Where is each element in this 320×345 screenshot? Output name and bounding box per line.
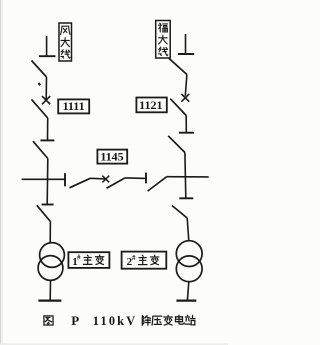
- wire through bus II: [184, 153, 187, 199]
- wire: [45, 77, 47, 99]
- bus section II: [167, 176, 209, 178]
- label box 2#主变: [122, 252, 167, 269]
- disconnector contact bar: [179, 197, 193, 199]
- breaker 1121 (x symbol): [181, 94, 189, 102]
- line terminal (left feeder): [39, 36, 56, 56]
- disconnector blade (transformer T2 branch): [172, 206, 187, 219]
- ground terminal T1: [38, 300, 61, 302]
- wire: [91, 177, 106, 180]
- disconnector blade (left feeder below breaker): [32, 99, 48, 118]
- disconnector contact bar: [40, 139, 54, 141]
- svg-text:110kV: 110kV: [93, 314, 138, 328]
- wire: [125, 177, 146, 180]
- svg-text:1121: 1121: [139, 98, 162, 112]
- transformer T2: [176, 241, 202, 282]
- svg-text:P: P: [71, 313, 79, 328]
- left page edge shading: [0, 0, 1, 345]
- wire: [187, 282, 188, 300]
- wire: [49, 280, 51, 300]
- disconnector blade (right feeder below breaker): [170, 99, 186, 116]
- disconnector contact bar: [179, 132, 194, 134]
- svg-text:#: #: [132, 254, 136, 262]
- bus-tie disconnector blade (right): [148, 177, 167, 191]
- svg-text:#: #: [77, 254, 81, 262]
- bus-tie disconnector blade (left): [70, 178, 91, 188]
- breaker 1111 (x symbol): [42, 96, 50, 104]
- disconnector blade QS (left feeder top): [32, 61, 47, 78]
- disconnector blade (right feeder top): [169, 58, 187, 74]
- wire through bus I: [46, 159, 49, 205]
- bus-tie contact bar (right): [145, 173, 147, 184]
- svg-text:1111: 1111: [63, 99, 85, 113]
- bus section I: [22, 178, 65, 180]
- wire: [49, 222, 51, 244]
- ink speck: [39, 83, 41, 85]
- svg-text:1145: 1145: [100, 150, 123, 164]
- label box 1121: [136, 98, 166, 113]
- bottom page edge shading: [0, 343, 228, 345]
- bus-tie contact bar (left): [64, 173, 66, 186]
- disconnector blade (left feeder to bus): [33, 141, 48, 158]
- label box 1#主变: [68, 252, 109, 268]
- label box 1111: [58, 99, 89, 113]
- disconnector blade (right feeder to bus): [168, 136, 185, 153]
- wire: [185, 116, 187, 133]
- wire: [47, 118, 49, 140]
- transformer T1: [38, 243, 64, 281]
- line terminal (right feeder): [178, 34, 194, 54]
- bus-tie disconnector blade (middle-right): [107, 178, 126, 188]
- disconnector contact bar: [42, 204, 54, 206]
- wire: [185, 75, 187, 96]
- disconnector blade (transformer T1 branch): [37, 205, 51, 221]
- line label 福大线: [156, 21, 171, 59]
- line label 风大线: [59, 23, 72, 61]
- ground terminal T2: [176, 300, 196, 302]
- breaker 1145 (x symbol): [102, 176, 109, 183]
- wire: [187, 218, 189, 241]
- caption: 图 P 110kV 降压变电站: [44, 313, 195, 328]
- paper background: [0, 0, 228, 345]
- label box 1145: [97, 150, 127, 164]
